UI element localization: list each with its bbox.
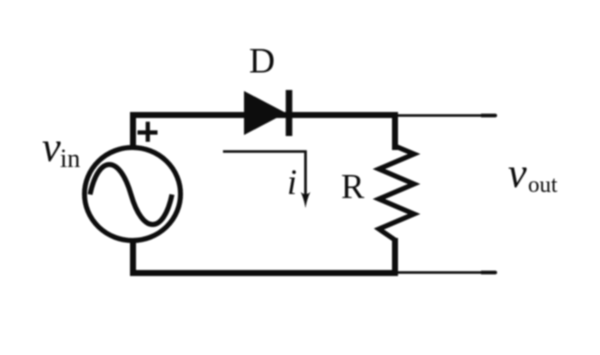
wire output top thin lead [397,114,497,117]
svg-text:out: out [528,172,558,197]
wire output top lead end cap [481,114,496,118]
current i arrowhead [301,192,311,208]
diode D triangle [244,91,286,135]
wire bottom horizontal [133,238,395,273]
wire top horizontal [133,115,395,150]
svg-text:D: D [249,41,275,81]
svg-text:R: R [341,167,365,206]
current i indicator line [223,152,306,200]
wire output bottom lead end cap [481,271,496,275]
svg-text:i: i [287,162,297,202]
wire output bottom thin lead [397,271,497,274]
svg-text:v: v [508,151,527,197]
svg-text:in: in [60,144,80,173]
svg-text:v: v [42,125,61,171]
resistor R zigzag [379,146,414,240]
diode D cathode bar [286,90,293,136]
plus sign polarity mark [138,122,158,142]
AC source V1 circle [85,148,181,241]
AC source sine wave [90,165,172,225]
